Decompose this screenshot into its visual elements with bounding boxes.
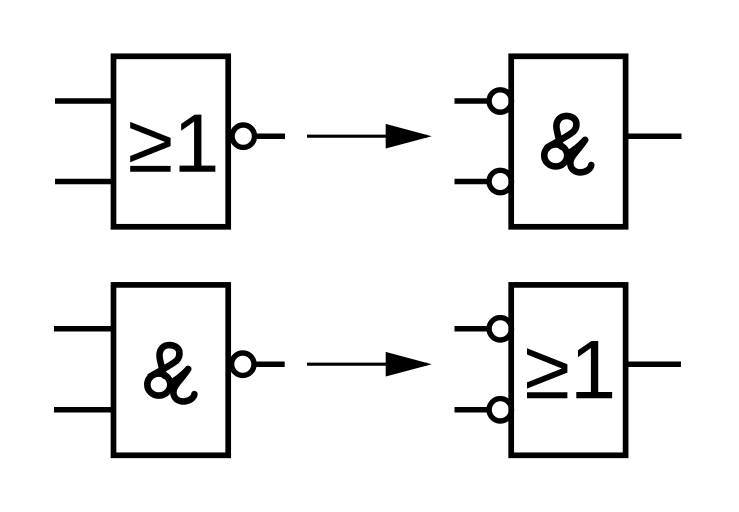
inversion bubble at U4 input A xyxy=(489,318,511,340)
inversion bubble at U2 input A xyxy=(489,90,511,112)
equivalence arrow (bottom) xyxy=(307,352,432,377)
wire: U4 input A xyxy=(455,326,490,332)
gate U2 body (AND, IEC box) xyxy=(511,56,625,227)
equivalence arrow (top) xyxy=(307,124,432,149)
label "&" of U3 xyxy=(147,345,194,401)
label "&" of U2 xyxy=(544,116,591,172)
inversion bubble at U1 output xyxy=(232,125,254,147)
inversion bubble at U3 output xyxy=(232,353,254,375)
wire: U4 output xyxy=(626,361,681,367)
wire: U3 output stub xyxy=(254,361,285,367)
gate U1 body (NOR, IEC box) xyxy=(114,56,229,227)
wire: U2 input A xyxy=(455,98,490,104)
gate U3 body (NAND, IEC box) xyxy=(114,285,229,455)
wire: U1 input A xyxy=(55,98,114,104)
wire: U4 input B xyxy=(455,407,490,413)
gate U4 body (OR, IEC box) xyxy=(511,285,625,455)
wire: U2 input B xyxy=(455,179,490,185)
wire: U3 input A xyxy=(54,326,114,332)
label "≥1" of U1 xyxy=(130,115,215,172)
wire: U1 output stub xyxy=(255,133,286,139)
wire: U2 output xyxy=(626,133,682,139)
label "≥1" of U4 xyxy=(527,341,612,398)
inversion bubble at U2 input B xyxy=(489,170,511,192)
wire: U3 input B xyxy=(54,407,114,413)
inversion bubble at U4 input B xyxy=(489,399,511,421)
wire: U1 input B xyxy=(55,179,114,185)
